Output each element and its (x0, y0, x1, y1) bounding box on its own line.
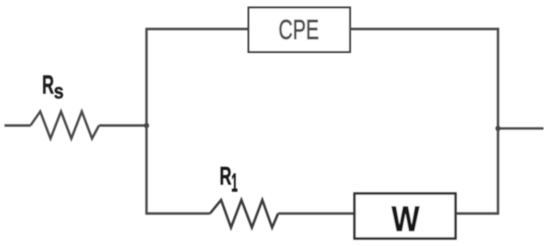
svg-text:W: W (392, 199, 420, 239)
wire: right vertical bus (497, 28, 499, 215)
wire: bottom branch left segment (147, 212, 211, 214)
svg-text:s: s (54, 81, 64, 104)
resistor Rs (zigzag) (31, 112, 100, 139)
CPE box (249, 8, 351, 53)
wire: top branch right segment (350, 28, 499, 30)
svg-text:CPE: CPE (279, 14, 320, 45)
wire: top branch left segment (147, 28, 250, 30)
wire: left input lead (5, 124, 31, 126)
node: junction right (495, 126, 500, 131)
wire: W box to right bus (456, 212, 499, 214)
wire: Rs to left node (99, 124, 148, 126)
svg-text:1: 1 (231, 168, 238, 198)
node: junction left (144, 123, 149, 128)
label R1 (220, 163, 238, 198)
wire: R1 to W box (278, 212, 354, 214)
resistor R1 (zigzag) (210, 200, 278, 228)
W box (Warburg element) (355, 194, 456, 239)
svg-text:R: R (42, 70, 54, 100)
label Rs (42, 70, 64, 104)
svg-text:R: R (220, 163, 232, 191)
wire: right output lead (498, 127, 544, 129)
wire: left vertical bus (145, 28, 147, 215)
